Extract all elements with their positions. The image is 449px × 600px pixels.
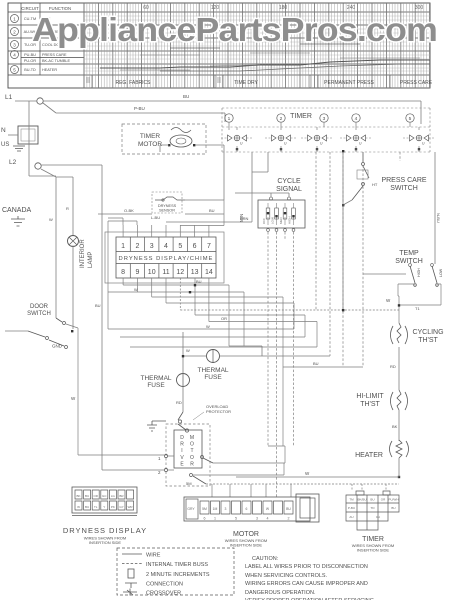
svg-text:1: 1 <box>158 456 161 461</box>
svg-text:CAUTION:: CAUTION: <box>252 556 279 562</box>
svg-text:PK: PK <box>111 505 115 509</box>
display bottom pin wires staircase <box>108 221 317 367</box>
timer contact junction dots <box>236 148 238 150</box>
motor start switch upper contact <box>203 458 213 463</box>
svg-text:W: W <box>386 298 391 303</box>
svg-text:HEATER: HEATER <box>42 68 57 72</box>
table row circled number 3 <box>11 41 19 49</box>
svg-text:3: 3 <box>13 42 16 47</box>
svg-text:SWITCH: SWITCH <box>27 311 51 317</box>
svg-text:2: 2 <box>288 517 290 521</box>
thermal fuse 2 <box>177 374 190 387</box>
svg-text:BU-TD: BU-TD <box>24 68 36 72</box>
svg-text:MED: MED <box>279 217 283 225</box>
wire heater return W <box>236 458 399 477</box>
cycle signal lamp OFF <box>267 203 269 225</box>
timer chart table row lines <box>8 12 430 75</box>
svg-text:BU: BU <box>95 303 101 308</box>
interior lamp <box>68 236 79 247</box>
svg-text:TIMER: TIMER <box>290 113 312 120</box>
svg-text:CU: CU <box>376 515 380 519</box>
svg-text:1: 1 <box>13 16 16 21</box>
wire P-BU timer feed <box>43 103 225 122</box>
svg-text:U: U <box>284 142 287 146</box>
timer motor dashed box <box>122 124 206 154</box>
svg-text:U: U <box>240 142 243 146</box>
svg-text:GRY: GRY <box>187 507 195 511</box>
svg-text:TH'ST: TH'ST <box>360 401 380 408</box>
svg-text:8: 8 <box>121 269 125 276</box>
wire hilimit to heater <box>398 410 400 441</box>
table row circled number 2 <box>11 28 19 36</box>
svg-text:W: W <box>206 324 210 329</box>
svg-text:PU/WH: PU/WH <box>389 498 399 502</box>
svg-text:TEMP: TEMP <box>399 250 419 257</box>
wire timer motor to buss <box>160 145 224 200</box>
svg-text:4: 4 <box>164 243 168 250</box>
wire lamp leads <box>72 246 74 330</box>
svg-text:TIMER: TIMER <box>140 133 161 140</box>
svg-text:BU: BU <box>85 494 89 498</box>
svg-text:BU: BU <box>196 279 202 284</box>
svg-text:GY: GY <box>119 505 123 509</box>
svg-text:PU-BU: PU-BU <box>24 53 36 57</box>
svg-text:SIGNAL: SIGNAL <box>276 186 302 193</box>
svg-text:BU: BU <box>370 498 374 502</box>
svg-text:3: 3 <box>225 507 227 511</box>
timer contact group at 419 <box>410 135 429 141</box>
svg-text:1: 1 <box>214 517 216 521</box>
legend dashed box <box>117 548 234 595</box>
svg-text:4: 4 <box>355 116 358 122</box>
svg-text:OR: OR <box>381 498 386 502</box>
temp switch contacts <box>363 273 406 275</box>
svg-text:N: N <box>1 127 6 134</box>
svg-text:R: R <box>66 206 69 211</box>
svg-text:W: W <box>134 287 138 292</box>
timer dashed box <box>222 108 430 152</box>
svg-text:THERMAL: THERMAL <box>140 375 171 382</box>
svg-text:INSERTION SIDE: INSERTION SIDE <box>230 543 262 548</box>
svg-text:DRYNESS DISPLAY/CHIME: DRYNESS DISPLAY/CHIME <box>119 256 214 262</box>
svg-text:DRYNESS DISPLAY: DRYNESS DISPLAY <box>63 526 147 535</box>
svg-text:L2: L2 <box>9 159 17 166</box>
motor ground <box>147 421 166 431</box>
svg-text:PRESS CARE: PRESS CARE <box>400 80 433 86</box>
svg-text:BK: BK <box>392 424 398 429</box>
legend crossover <box>123 589 137 596</box>
svg-text:HEATER: HEATER <box>355 452 383 459</box>
timer cam circled 1 <box>225 114 233 122</box>
drive motor inner box <box>174 430 202 468</box>
svg-text:MOTOR: MOTOR <box>233 531 259 538</box>
legend 2 minute increments <box>128 569 134 578</box>
svg-text:14: 14 <box>205 269 213 276</box>
svg-text:11: 11 <box>162 269 169 276</box>
svg-text:3: 3 <box>323 116 326 122</box>
svg-text:5: 5 <box>178 243 182 250</box>
svg-text:CYCLING: CYCLING <box>412 329 443 336</box>
svg-text:PERMANENT PRESS: PERMANENT PRESS <box>324 80 374 86</box>
door switch lower contact <box>5 330 28 332</box>
svg-text:O-BK: O-BK <box>124 208 134 213</box>
svg-text:CROSSOVER: CROSSOVER <box>146 591 181 597</box>
svg-text:SWITCH: SWITCH <box>390 185 418 192</box>
svg-text:AppliancePartsPros.com: AppliancePartsPros.com <box>32 11 437 48</box>
svg-text:W: W <box>305 471 310 476</box>
svg-text:INSERTION SIDE: INSERTION SIDE <box>89 540 121 545</box>
svg-text:DANGEROUS OPERATION.: DANGEROUS OPERATION. <box>245 590 316 596</box>
cycle signal lamp LOW <box>276 203 278 225</box>
motor connector right plug <box>296 494 319 522</box>
svg-text:BU: BU <box>209 208 215 213</box>
table row circled number 5 <box>11 66 19 74</box>
wire stubs into motor strip <box>212 484 291 497</box>
heater element <box>390 441 409 457</box>
hi-limit thermostat <box>391 392 408 410</box>
svg-text:W: W <box>186 348 190 353</box>
svg-text:6: 6 <box>204 517 206 521</box>
timer chart grid minor vertical lines <box>84 3 430 88</box>
wire BRN display feed <box>166 193 252 226</box>
heater return corner dot <box>398 476 400 478</box>
legend internal timer buss <box>122 563 142 565</box>
svg-text:INTERIOR: INTERIOR <box>80 239 86 268</box>
svg-text:TIMER: TIMER <box>362 536 384 543</box>
dryness sensor element <box>155 197 185 200</box>
svg-text:FUSE: FUSE <box>204 374 222 381</box>
svg-text:WIRE: WIRE <box>146 553 161 559</box>
dashed pin wire to temp switch <box>180 278 399 310</box>
timer contact group at 317 <box>308 135 327 141</box>
svg-text:DRIVE: DRIVE <box>180 435 184 467</box>
motor start switch lower contact <box>190 474 193 477</box>
thermal fuse 1 <box>207 350 220 363</box>
svg-text:5: 5 <box>13 67 16 72</box>
svg-text:PROTECTOR: PROTECTOR <box>206 409 231 414</box>
svg-text:U: U <box>422 142 425 146</box>
timer cam circled 2 <box>277 114 285 122</box>
svg-text:INSERTION SIDE: INSERTION SIDE <box>357 548 389 553</box>
svg-text:TD: TD <box>371 506 376 510</box>
svg-text:1M: 1M <box>213 507 218 511</box>
svg-text:3: 3 <box>256 517 258 521</box>
svg-text:US: US <box>1 142 9 148</box>
svg-text:5: 5 <box>409 116 412 122</box>
svg-text:PU-OR: PU-OR <box>24 59 36 63</box>
svg-text:2 MINUTE INCREMENTS: 2 MINUTE INCREMENTS <box>146 572 210 578</box>
svg-text:5: 5 <box>235 517 237 521</box>
svg-text:BU: BU <box>313 361 319 366</box>
motor terminal 1 <box>164 454 167 457</box>
svg-text:TL: TL <box>94 505 98 509</box>
timer contact group at 237 <box>228 135 247 141</box>
wire press care to buss junction <box>343 151 352 311</box>
timer contact group at 356 <box>347 135 366 141</box>
timer contact group at 281 <box>272 135 291 141</box>
svg-text:BU: BU <box>286 507 291 511</box>
wire cycle signal drops to motor area <box>268 232 294 497</box>
canada ground symbol <box>11 216 25 226</box>
svg-text:U: U <box>359 142 362 146</box>
timer chart left table frame <box>8 3 430 88</box>
wire L2 runs <box>41 165 164 470</box>
svg-text:3: 3 <box>150 243 154 250</box>
cycle signal lamp MED <box>284 203 286 225</box>
display top feed wires <box>123 225 209 237</box>
chart band symbol marks <box>86 78 221 82</box>
svg-text:HI-LIMIT: HI-LIMIT <box>356 393 384 400</box>
timer buss verticals <box>316 152 400 367</box>
svg-text:W: W <box>266 507 270 511</box>
svg-text:2: 2 <box>13 29 16 34</box>
dryness display chime outer box <box>105 232 224 283</box>
timer motor winding symbol M1 <box>171 128 191 133</box>
svg-text:THERMAL: THERMAL <box>197 367 228 374</box>
svg-text:TH'ST: TH'ST <box>418 337 438 344</box>
legend wire <box>122 553 142 555</box>
svg-text:12: 12 <box>176 269 184 276</box>
right edge buss N-BU <box>434 152 436 264</box>
timer connector grid <box>346 495 399 530</box>
svg-text:4: 4 <box>13 52 16 57</box>
timer chart grid sub horizontal lines <box>84 16 430 71</box>
svg-text:GND: GND <box>52 344 63 349</box>
cycling thermostat <box>391 326 408 344</box>
svg-text:BK: BK <box>76 494 80 498</box>
svg-text:DOOR: DOOR <box>30 304 49 310</box>
svg-text:WIRING ERRORS CAN CAUSE IMPROP: WIRING ERRORS CAN CAUSE IMPROPER AND <box>245 581 368 587</box>
svg-text:9: 9 <box>135 269 139 276</box>
svg-text:W: W <box>77 505 80 509</box>
svg-text:WR: WR <box>128 505 134 509</box>
svg-text:LAMP: LAMP <box>88 252 94 268</box>
svg-text:OFF: OFF <box>262 218 266 224</box>
svg-text:WHEN SERVICING CONTROLS.: WHEN SERVICING CONTROLS. <box>245 573 328 579</box>
svg-text:13: 13 <box>191 269 199 276</box>
svg-text:HT: HT <box>372 182 378 187</box>
svg-text:REG. FABRICS: REG. FABRICS <box>115 80 151 86</box>
drive motor dashed box <box>166 424 210 486</box>
svg-text:CANADA: CANADA <box>2 207 32 214</box>
timer cam circled 5 <box>406 114 414 122</box>
svg-text:OR: OR <box>93 494 98 498</box>
svg-text:PRESS CARE: PRESS CARE <box>381 177 426 184</box>
table row circled number 1 <box>11 15 19 23</box>
svg-text:MOTOR: MOTOR <box>190 435 194 467</box>
svg-text:DRYNESS: DRYNESS <box>158 204 177 208</box>
motor terminal 2 <box>164 468 167 471</box>
table row circled number 4 <box>11 51 19 59</box>
cycle signal lamp HIGH <box>293 203 295 225</box>
dryness display chime inner box <box>116 237 216 278</box>
dryness display connector <box>72 487 137 513</box>
wire L1 BU top run <box>15 101 421 124</box>
svg-text:INTERNAL TIMER BUSS: INTERNAL TIMER BUSS <box>146 562 208 568</box>
svg-text:BU: BU <box>183 94 189 99</box>
svg-text:L1: L1 <box>5 94 13 101</box>
US ground mark <box>13 146 25 151</box>
svg-text:U: U <box>320 142 323 146</box>
svg-text:5M: 5M <box>202 507 207 511</box>
timer chart grid major vertical lines <box>84 3 430 88</box>
temp switch output wires <box>398 284 441 323</box>
svg-text:BR: BR <box>119 494 124 498</box>
wire cycling to hilimit <box>398 347 400 390</box>
svg-text:TIME DRY: TIME DRY <box>234 80 258 86</box>
wire N feed <box>8 134 18 136</box>
svg-text:6: 6 <box>246 507 248 511</box>
svg-text:T1: T1 <box>415 306 420 311</box>
chart bottom band separators <box>92 75 390 88</box>
svg-text:BU: BU <box>391 506 395 510</box>
svg-text:10: 10 <box>148 269 156 276</box>
svg-text:BRN: BRN <box>240 216 249 221</box>
svg-text:MOTOR: MOTOR <box>138 141 162 148</box>
svg-text:P-BU: P-BU <box>134 106 145 111</box>
overload protector <box>178 412 186 430</box>
wire feeds to cycle signal <box>235 152 289 197</box>
svg-text:W: W <box>49 217 53 222</box>
wire L1 through plug vertical <box>29 101 56 176</box>
motor connector strip <box>184 497 310 521</box>
svg-text:LOW: LOW <box>271 217 275 224</box>
svg-text:LG: LG <box>111 494 116 498</box>
wire dashed buss to timer connector <box>206 484 399 491</box>
lower staircase horizontals <box>108 329 363 446</box>
svg-text:2: 2 <box>135 243 139 250</box>
svg-text:OR: OR <box>221 316 227 321</box>
svg-text:L-BU: L-BU <box>151 215 160 220</box>
svg-text:4: 4 <box>267 517 269 521</box>
timer cam circled 4 <box>352 114 360 122</box>
svg-text:HIGH: HIGH <box>417 268 421 277</box>
svg-text:7: 7 <box>207 243 211 250</box>
svg-text:LOW: LOW <box>439 268 443 277</box>
svg-text:RD: RD <box>176 400 182 405</box>
svg-text:RD: RD <box>390 364 396 369</box>
svg-text:P-BU: P-BU <box>348 506 355 510</box>
wire tf2 vertical <box>182 332 184 412</box>
svg-text:1: 1 <box>228 116 231 122</box>
svg-text:2: 2 <box>158 470 161 475</box>
svg-text:HIGH: HIGH <box>288 217 292 225</box>
svg-text:FUSE: FUSE <box>147 382 165 389</box>
timer cam circled 3 <box>320 114 328 122</box>
door switch upper contact <box>56 318 62 322</box>
svg-text:Y: Y <box>103 505 105 509</box>
svg-text:W: W <box>71 396 76 401</box>
wire tf1 run <box>183 346 330 356</box>
cycle signal box <box>258 200 305 228</box>
svg-text:PRESS CARE: PRESS CARE <box>42 53 67 57</box>
dryness sensor dashed box <box>152 192 182 213</box>
svg-text:AU: AU <box>349 515 353 519</box>
svg-text:6: 6 <box>193 243 197 250</box>
svg-text:N-BU: N-BU <box>436 213 441 223</box>
svg-text:TM: TM <box>349 498 354 502</box>
svg-text:GC: GC <box>102 494 107 498</box>
svg-text:SENSOR: SENSOR <box>159 209 175 213</box>
svg-text:5M: 5M <box>186 481 192 486</box>
timer chart table column lines <box>21 3 84 88</box>
svg-text:BU: BU <box>85 505 89 509</box>
staircase junction dots <box>342 309 344 311</box>
svg-text:BK/BU: BK/BU <box>357 498 366 502</box>
svg-text:1: 1 <box>121 243 125 250</box>
svg-text:CYCLE: CYCLE <box>277 178 301 185</box>
legend connection <box>125 583 137 588</box>
svg-text:BK-AC TUMBLE: BK-AC TUMBLE <box>42 59 70 63</box>
chart trace lines <box>100 60 430 68</box>
svg-text:2: 2 <box>280 116 283 122</box>
svg-text:CONNECTION: CONNECTION <box>146 582 183 588</box>
svg-text:LABEL ALL WIRES PRIOR TO DISCO: LABEL ALL WIRES PRIOR TO DISCONNECTION <box>245 564 368 570</box>
